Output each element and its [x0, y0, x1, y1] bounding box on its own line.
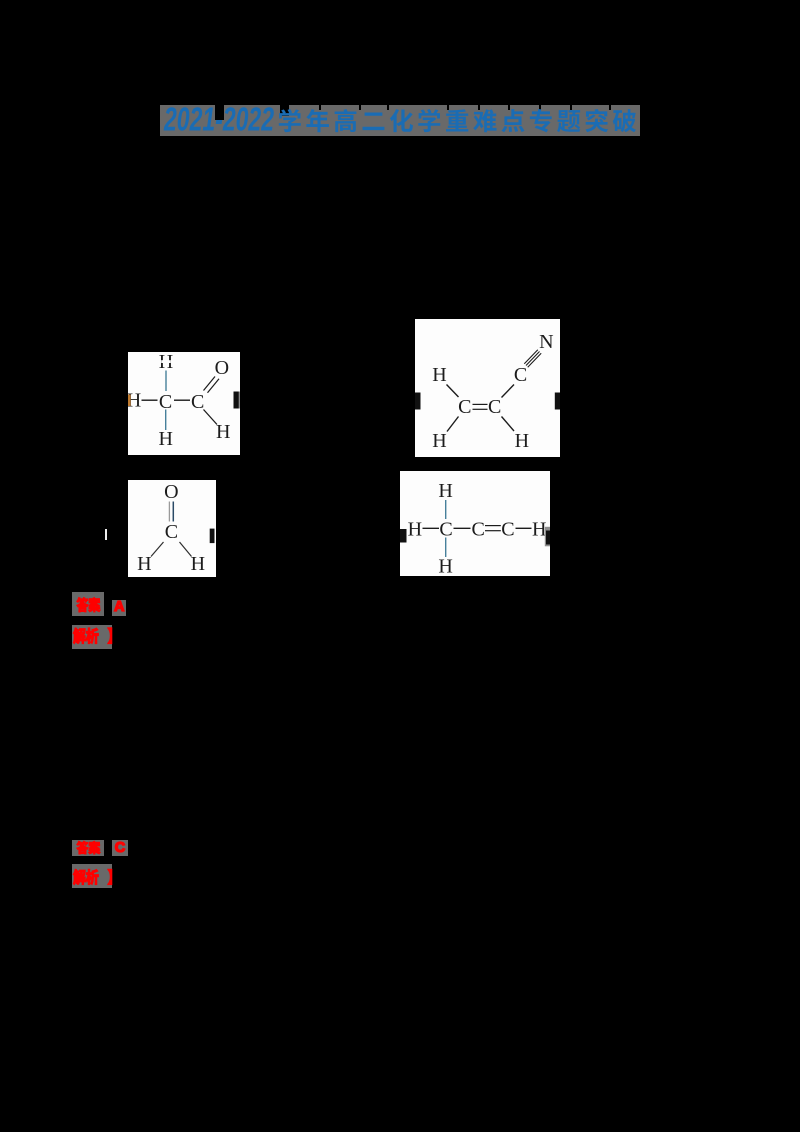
gray sliver right edge of B1 [239, 392, 240, 409]
title hyphen notch [215, 105, 224, 120]
answer1 label char 案 [89, 597, 100, 611]
bond C#N line 3 [528, 353, 542, 367]
title char 难 [473, 109, 496, 132]
title cell slit 1 [280, 105, 289, 116]
bond C1-H vertical lower [165, 410, 167, 431]
clipped char right edge of B4 [546, 531, 550, 545]
svg-text:H: H [216, 421, 230, 443]
bond C2=C3 line 2 [485, 530, 501, 532]
structure box B2 acrylonitrile [415, 319, 560, 457]
bond C=O line 2 [172, 502, 174, 522]
title char 点 [501, 109, 524, 132]
svg-text:H: H [432, 430, 446, 452]
structure box B4 propene [400, 471, 550, 576]
structure box B1 acetaldehyde [128, 352, 240, 455]
clipped char left edge of B4 [400, 529, 407, 543]
title char 学 [418, 109, 440, 132]
bond C1=C2 line 2 [473, 408, 488, 410]
analysis2 label char 析 [86, 869, 98, 884]
title cell slit 9 [570, 105, 572, 110]
bond H-C1 vertical [165, 371, 167, 392]
analysis2 label char 】 [108, 869, 112, 884]
svg-text:H: H [532, 518, 546, 540]
answer1 letter A [112, 600, 126, 616]
bond C2-H diagonal [204, 410, 218, 425]
svg-text:C: C [191, 391, 204, 413]
bond C-H right diagonal [180, 542, 192, 557]
svg-text:C: C [165, 521, 178, 543]
analysis1 label char 析 [86, 627, 98, 642]
svg-text:C: C [439, 518, 452, 540]
title char 突 [585, 109, 608, 132]
title char 破 [613, 109, 636, 132]
bond H-C1 left [423, 527, 440, 529]
svg-text:C: C [501, 518, 514, 540]
clipped char left edge of B2 [415, 393, 421, 410]
bond C1-C2 [174, 399, 190, 401]
svg-text:H: H [438, 556, 452, 577]
clipped char right edge of B2 [555, 393, 560, 410]
title banner highlight strip [160, 105, 641, 136]
structure box B3 formaldehyde [128, 480, 216, 577]
title char 专 [530, 109, 552, 132]
analysis1 label char 解 [73, 627, 85, 643]
clipped char right edge of B3 [210, 529, 215, 544]
bond C3-H right [516, 527, 532, 529]
title cell slit 2 [319, 105, 321, 110]
svg-text:N: N [539, 331, 553, 353]
svg-text:H: H [137, 553, 151, 575]
bond C2-CN diagonal [502, 385, 515, 398]
title char 二 [363, 113, 385, 131]
analysis1 label char 】 [108, 627, 112, 643]
faded crossbar of top H making it look like II [161, 360, 171, 363]
bond C1=C2 line 1 [473, 403, 488, 405]
bond C1-H vertical bottom [445, 538, 447, 558]
bond C1-C2 propene [454, 527, 471, 529]
bond C#N line 2 [526, 352, 540, 366]
title cell slit 10 [609, 105, 611, 110]
bond H-C1 upper diagonal [447, 385, 459, 398]
bond C2=O line 2 [208, 379, 220, 393]
title char 化 [390, 109, 413, 132]
answer2 label char 案 [89, 841, 100, 854]
title char 年 [306, 109, 329, 132]
answer2 label highlight [72, 840, 104, 857]
svg-text:H: H [438, 480, 452, 502]
bond H-C1 vertical top [445, 500, 447, 519]
analysis2 label char 解 [73, 869, 85, 884]
analysis2 label highlight [72, 864, 112, 888]
bond C-H left diagonal [151, 542, 164, 557]
svg-text:H: H [408, 518, 422, 540]
svg-text:H: H [432, 364, 446, 386]
bond C2=C3 line 1 [485, 525, 501, 527]
answer1 letter highlight [112, 600, 126, 616]
bond C=O line 1 [168, 502, 170, 522]
title cell slit 4 [387, 105, 389, 110]
svg-text:O: O [164, 481, 178, 503]
title cell slit 6 [478, 105, 480, 110]
answer2 letter C [112, 840, 128, 857]
bond C2=O line 1 [204, 377, 216, 391]
bond C#N line 1 [524, 350, 538, 364]
title char 学 [279, 109, 301, 132]
title char 高 [335, 109, 357, 132]
bond C2-H lower diagonal [502, 417, 515, 432]
svg-text:C: C [472, 518, 485, 540]
bond H-C1 lower diagonal [447, 417, 459, 432]
title char 重 [446, 109, 468, 131]
svg-text:H: H [191, 553, 205, 575]
svg-text:O: O [215, 357, 229, 379]
analysis1 label highlight [72, 625, 112, 649]
title cell slit 3 [359, 105, 361, 110]
bond H-C1 horizontal [142, 399, 158, 401]
answer2 letter highlight [112, 840, 128, 857]
clipped char right edge of B1 [234, 392, 239, 409]
svg-text:H: H [158, 428, 172, 450]
svg-text:C: C [488, 396, 501, 418]
gray patch right edge of B4 [545, 527, 550, 547]
svg-text:C: C [458, 396, 471, 418]
svg-text:C: C [514, 364, 527, 386]
answer1 label char 答 [77, 597, 88, 611]
svg-text:H: H [515, 430, 529, 452]
title char 题 [557, 110, 580, 132]
answer1 label highlight [72, 592, 104, 616]
title text svg [0, 0, 800, 160]
answer2 label char 答 [77, 841, 88, 854]
svg-text:2021-2022: 2021-2022 [163, 101, 274, 138]
title cell slit 8 [539, 105, 541, 110]
title cell slit 5 [447, 105, 449, 110]
title cell slit 7 [508, 105, 510, 110]
white speck left of B3 [105, 529, 107, 541]
clipped orange sliver left edge of B1 [128, 395, 131, 407]
